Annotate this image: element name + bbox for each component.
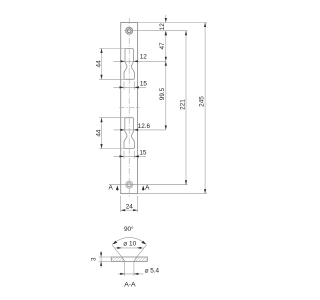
svg-text:99.5: 99.5 xyxy=(159,87,166,100)
cone flank extension right (for 90 deg) xyxy=(137,245,147,257)
dimension d10 (countersink top) xyxy=(115,240,145,249)
hole H1 inner circle d5.4 xyxy=(127,29,131,33)
svg-text:15: 15 xyxy=(140,81,148,88)
dimension 12 (slot S1 width) xyxy=(114,54,166,63)
svg-text:47: 47 xyxy=(159,42,166,50)
hole H1 horizontal centerline / extension for 47,221 xyxy=(124,30,188,32)
hole H2 inner circle d5.4 xyxy=(127,183,131,187)
svg-text:3: 3 xyxy=(90,257,97,261)
dimension 3 (thickness) xyxy=(90,251,112,268)
dimension 44 (slot S2 length) xyxy=(95,118,125,149)
svg-text:⌀ 5.4: ⌀ 5.4 xyxy=(145,268,160,275)
dimension 47 (hole H1 to slot S1 waist) xyxy=(159,31,167,62)
svg-text:90°: 90° xyxy=(124,225,134,233)
dimension d5.4 (through hole) xyxy=(118,261,160,276)
svg-text:12: 12 xyxy=(140,54,148,61)
svg-text:A-A: A-A xyxy=(124,281,136,288)
dimension 15 (slot S1 lower width) xyxy=(114,81,148,90)
svg-text:12: 12 xyxy=(159,23,166,31)
svg-text:A: A xyxy=(108,184,113,191)
bottom edge extension line (for 245) xyxy=(138,193,207,195)
dimension 15 (slot S2 lower width) xyxy=(114,150,147,159)
top edge extension line (for 12 chain and 245) xyxy=(138,22,207,24)
svg-text:221: 221 xyxy=(179,99,186,110)
plate outline (front view 24x245) xyxy=(121,23,138,194)
svg-text:44: 44 xyxy=(95,129,102,137)
dimension 99.5 (slot S1 waist to slot S2 waist) xyxy=(159,61,167,130)
dimension 12 (top edge to hole H1, chain line) xyxy=(159,15,167,35)
arc arrowhead left xyxy=(112,241,117,245)
countersink V-groove left flank xyxy=(122,257,125,261)
dimension 221 (hole H1 to hole H2) xyxy=(179,31,187,185)
dimension 12.6 (slot S2 width) xyxy=(114,123,166,131)
section bar outline (24 x 3) xyxy=(111,257,147,261)
svg-text:⌀ 10: ⌀ 10 xyxy=(123,240,136,247)
slot S2 (lower waisted slot, 44 long) xyxy=(124,118,134,149)
dimension 44 (slot S1 length) xyxy=(95,49,125,80)
arc arrowhead right xyxy=(141,241,146,245)
svg-text:12.6: 12.6 xyxy=(138,123,151,130)
vertical centerline xyxy=(128,18,130,198)
90 degree arc xyxy=(112,237,146,244)
horizontal centerline mid-plate xyxy=(119,107,140,109)
hole H1 countersink outer circle xyxy=(126,27,133,34)
section arrow A right xyxy=(142,185,145,190)
section arrow A left xyxy=(116,185,119,190)
svg-text:A: A xyxy=(145,184,150,191)
svg-text:15: 15 xyxy=(139,150,147,157)
cone flank extension left (for 90 deg) xyxy=(112,245,122,257)
dimension 245 (overall length) xyxy=(199,23,207,194)
countersink V-groove right flank xyxy=(134,257,137,261)
section line A-A through hole H2 xyxy=(109,184,188,186)
svg-text:44: 44 xyxy=(95,60,102,68)
dimension 24 (plate width) xyxy=(121,196,138,213)
hole H2 countersink outer circle xyxy=(126,181,133,188)
svg-text:245: 245 xyxy=(199,96,206,107)
svg-text:24: 24 xyxy=(126,203,134,210)
slot S1 (upper waisted slot, 44 long) xyxy=(124,49,134,80)
